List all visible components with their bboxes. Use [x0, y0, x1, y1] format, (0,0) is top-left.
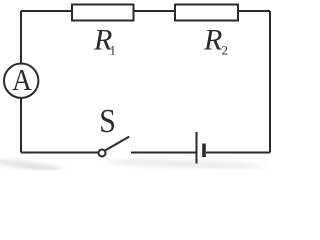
svg-text:S: S — [99, 101, 116, 139]
svg-text:R: R — [203, 24, 222, 57]
svg-text:2: 2 — [222, 43, 229, 58]
svg-text:1: 1 — [110, 43, 117, 58]
svg-text:A: A — [12, 63, 32, 97]
